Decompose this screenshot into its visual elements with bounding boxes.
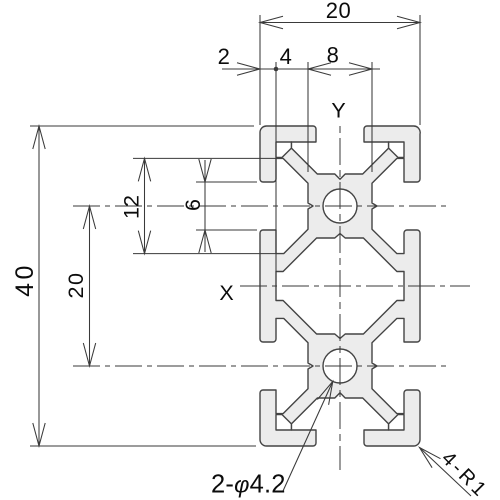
- dimension 12: [144, 158, 146, 253]
- extension line x=276 (wall 2mm): [275, 62, 277, 272]
- corner pocket 3: [276, 415, 291, 430]
- corner pocket 1: [276, 142, 291, 157]
- leader 4-R1: [420, 448, 472, 497]
- extension line x=260: [259, 15, 261, 125]
- svg-text:20: 20: [326, 0, 351, 23]
- corner pocket 4: [389, 415, 404, 430]
- profile body: 20x40 aluminium extrusion cross-section: [260, 126, 420, 446]
- svg-text:20: 20: [64, 272, 88, 299]
- center line Y axis: [339, 126, 341, 470]
- dimension 20 (top width): [260, 22, 420, 24]
- extension line x=372: [371, 62, 373, 172]
- extension line y=446: [30, 445, 256, 447]
- leader 2-phi4.2: [283, 381, 333, 491]
- dimension 20 (bore pitch): [89, 206, 91, 366]
- extension line y=254: [133, 253, 276, 255]
- svg-text:2-φ4.2: 2-φ4.2: [211, 471, 286, 499]
- svg-text:40: 40: [11, 262, 39, 297]
- bore hole bottom (phi 4.2): [323, 349, 357, 383]
- svg-text:4-R1: 4-R1: [437, 447, 492, 500]
- dimension 40 (height): [38, 126, 40, 446]
- extension line x=308: [307, 62, 309, 172]
- center line X axis: [240, 285, 470, 287]
- corner pocket 2: [389, 142, 404, 157]
- dimension row 2/4/8: [222, 68, 380, 70]
- center line upper bore: [73, 205, 446, 207]
- extension line y=230: [196, 229, 257, 231]
- center line lower bore: [73, 365, 446, 367]
- bore hole top (phi 4.2): [323, 189, 357, 223]
- svg-text:X: X: [219, 281, 233, 305]
- svg-text:8: 8: [327, 43, 340, 68]
- svg-text:2: 2: [218, 44, 231, 69]
- extension line y=182: [196, 181, 257, 183]
- extension line y=126: [30, 125, 254, 127]
- extension line x=420: [419, 15, 421, 125]
- svg-text:12: 12: [120, 195, 144, 219]
- svg-text:6: 6: [181, 199, 205, 211]
- dimension 6 (slot width): [204, 160, 206, 252]
- extension line y=158: [133, 157, 276, 159]
- svg-text:Y: Y: [331, 99, 345, 123]
- svg-text:4: 4: [280, 44, 293, 69]
- center octagonal cavity: [276, 234, 404, 339]
